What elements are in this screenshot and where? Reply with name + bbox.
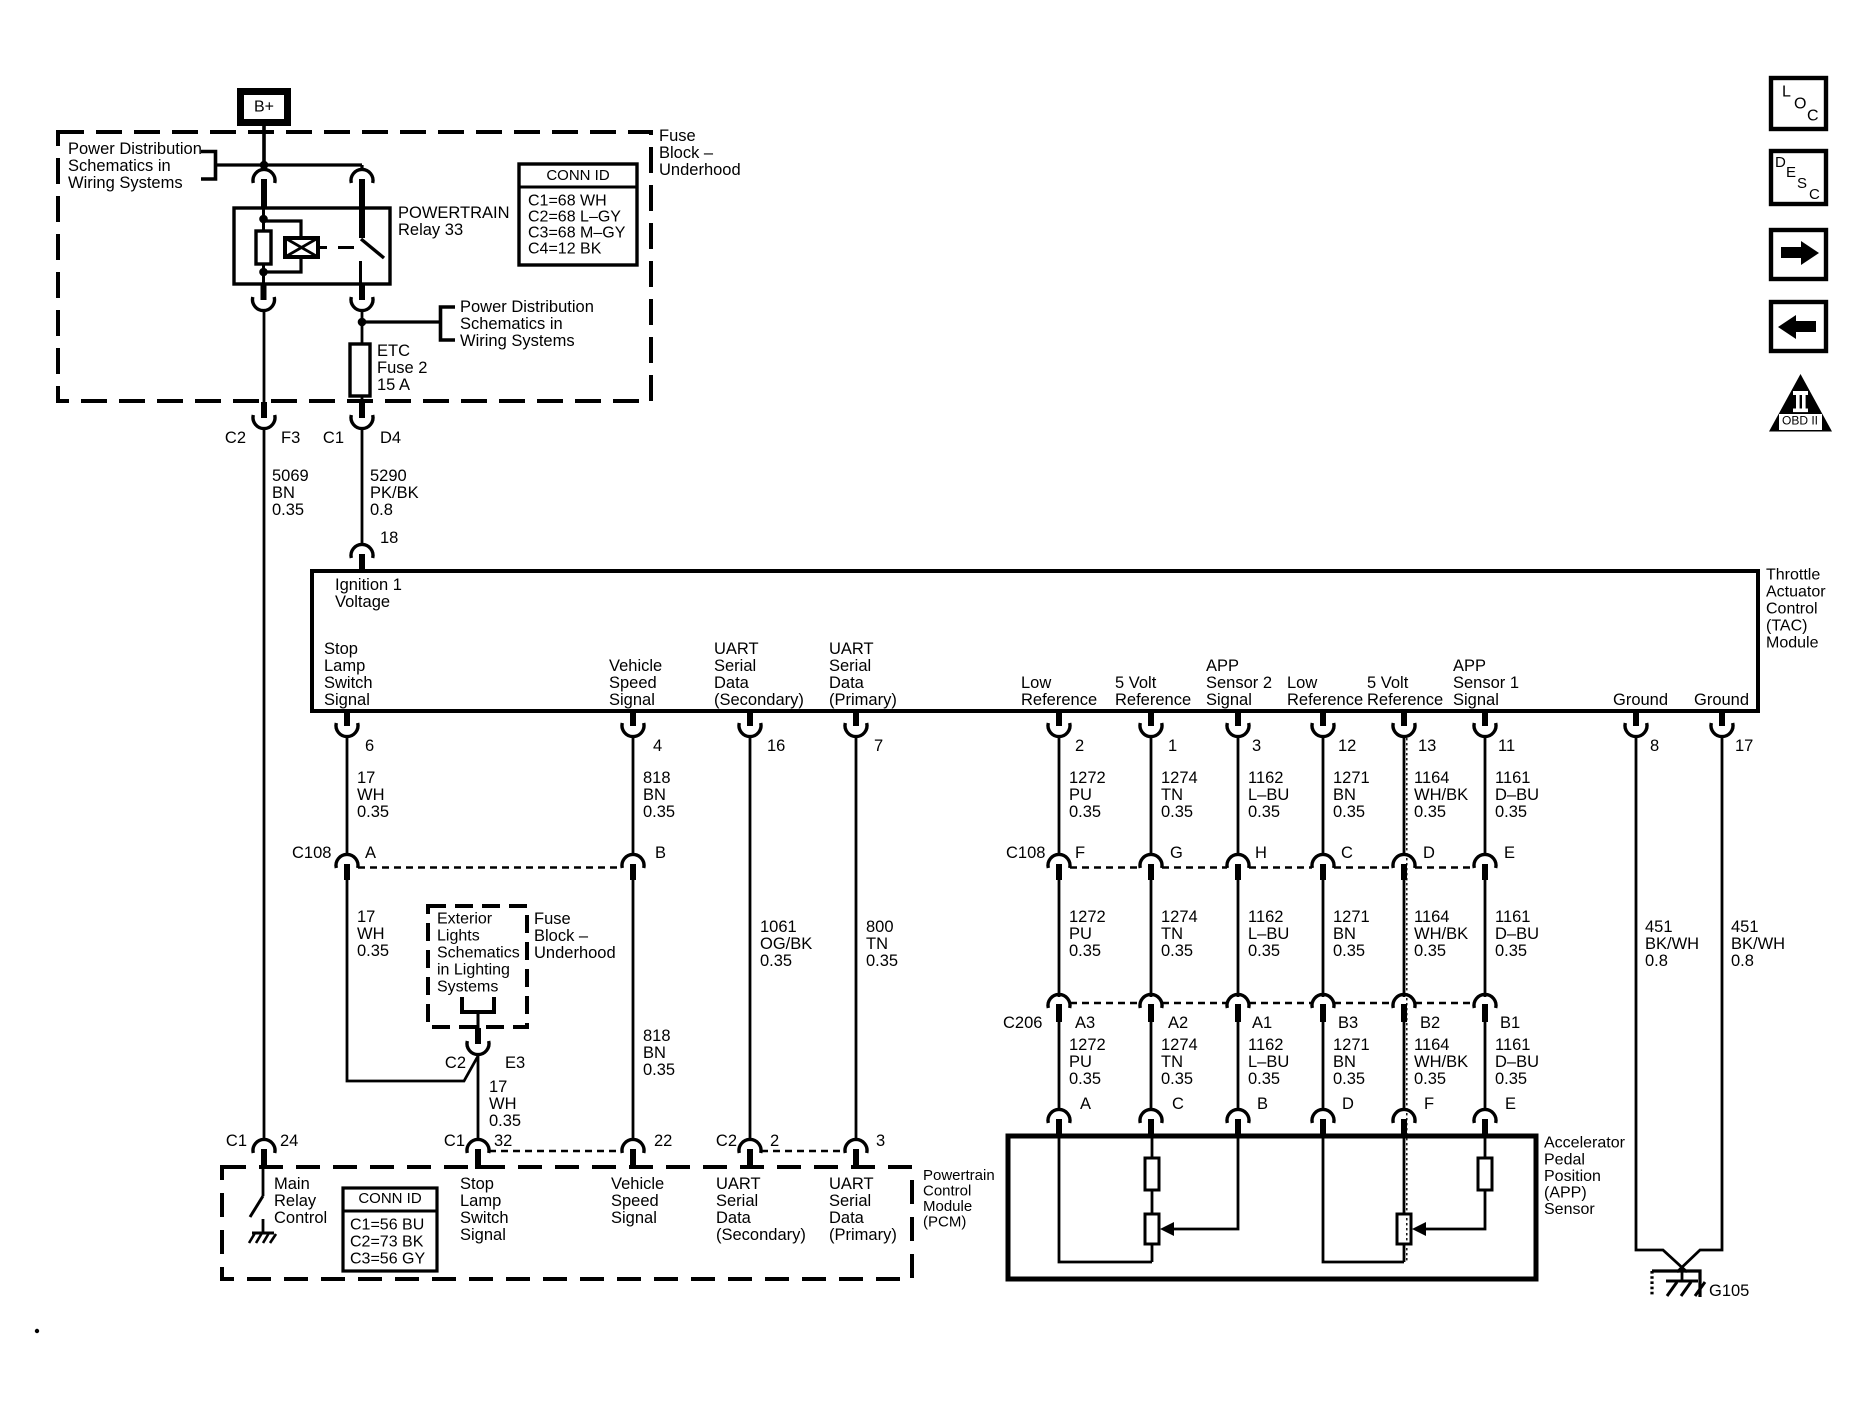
connector C206 A2 (1140, 994, 1162, 1008)
svg-text:D: D (1342, 1095, 1354, 1113)
wire APP D low reference (1323, 1136, 1404, 1262)
wire ground junction down (1681, 1268, 1684, 1282)
svg-text:Serial: Serial (829, 1192, 871, 1210)
svg-text:1271: 1271 (1333, 1036, 1370, 1054)
connector TAC pin 1 (1148, 711, 1154, 726)
svg-text:1272: 1272 (1069, 769, 1106, 787)
wire 5290 PK/BK down to TAC pin 18 (361, 428, 364, 545)
icon back arrow box (1771, 302, 1826, 351)
wire resistor bottom to junction (262, 264, 265, 285)
svg-text:C1=56 BU: C1=56 BU (350, 1217, 424, 1234)
connector C2 E3 (475, 1028, 481, 1044)
relay coil branch wires (264, 221, 302, 238)
connector PCM pin C1 24 (253, 1139, 275, 1153)
svg-text:2: 2 (770, 1132, 779, 1150)
svg-text:D4: D4 (380, 429, 401, 447)
resistor APP sensor 1 fixed (1478, 1158, 1492, 1190)
svg-text:D: D (1423, 844, 1435, 862)
wire potentiometer bottom (left) (1151, 1244, 1154, 1262)
svg-text:Pedal: Pedal (1544, 1151, 1585, 1168)
svg-text:PU: PU (1069, 1053, 1092, 1071)
wire 1271 C206 to APP sensor (1322, 1022, 1325, 1110)
svg-text:Lights: Lights (437, 928, 480, 945)
connector TAC pin 6 (344, 711, 350, 726)
wire TAC pin 6 to C108 A (346, 736, 349, 855)
svg-text:Switch: Switch (324, 674, 373, 692)
connector PCM pin C2 2 (739, 1139, 761, 1153)
svg-text:0.8: 0.8 (370, 501, 393, 519)
svg-text:TN: TN (1161, 1053, 1183, 1071)
svg-text:5290: 5290 (370, 467, 407, 485)
svg-text:BN: BN (1333, 786, 1356, 804)
svg-text:3: 3 (876, 1132, 885, 1150)
svg-text:C: C (1809, 186, 1820, 203)
connector TAC pin 16 (747, 711, 753, 726)
svg-text:B2: B2 (1420, 1014, 1440, 1032)
svg-text:Signal: Signal (1206, 691, 1252, 709)
svg-text:TN: TN (1161, 925, 1183, 943)
connector C108 D (1393, 854, 1415, 868)
svg-text:Ground: Ground (1694, 691, 1749, 709)
svg-text:Position: Position (1544, 1168, 1601, 1185)
relay switch lower contact (359, 261, 362, 285)
svg-text:E: E (1505, 1095, 1516, 1113)
svg-text:C2=73 BK: C2=73 BK (350, 1234, 424, 1251)
svg-text:Stop: Stop (324, 640, 358, 658)
svg-text:Reference: Reference (1287, 691, 1363, 709)
svg-text:C1: C1 (444, 1132, 465, 1150)
svg-text:L–BU: L–BU (1248, 925, 1289, 943)
connector PCM pin 3 (845, 1139, 867, 1153)
relay mechanical linkage dashes (318, 246, 327, 249)
svg-text:A: A (365, 844, 376, 862)
icon LOC box (1771, 78, 1826, 129)
wire ground TAC pin 17 down (1677, 736, 1722, 1272)
svg-text:C108: C108 (1006, 844, 1045, 862)
wire APP E signal with wiper arrow (1484, 1136, 1487, 1158)
wire C2 E3 down to PCM pin 32 (477, 1054, 480, 1140)
svg-text:B1: B1 (1500, 1014, 1520, 1032)
svg-text:OBD II: OBD II (1782, 414, 1818, 428)
svg-text:D–BU: D–BU (1495, 786, 1539, 804)
svg-text:Wiring Systems: Wiring Systems (68, 174, 183, 192)
connector relay 33 coil terminal top (253, 169, 275, 183)
svg-text:A: A (1080, 1095, 1091, 1113)
svg-text:0.35: 0.35 (1161, 1070, 1193, 1088)
icon DESC box (1771, 151, 1826, 204)
svg-text:Module: Module (923, 1198, 972, 1215)
svg-text:BN: BN (643, 786, 666, 804)
svg-text:E: E (1786, 164, 1796, 181)
connector C108 A (336, 854, 358, 868)
svg-text:WH: WH (489, 1095, 517, 1113)
svg-text:Vehicle: Vehicle (609, 657, 662, 675)
dashed connector line C108 right (1070, 866, 1140, 869)
svg-text:(Secondary): (Secondary) (716, 1226, 806, 1244)
fuse block underhood dashed box (58, 132, 651, 401)
svg-text:13: 13 (1418, 737, 1436, 755)
svg-text:Data: Data (829, 674, 865, 692)
svg-text:BN: BN (643, 1044, 666, 1062)
connector relay 33 coil terminal bottom (261, 285, 267, 300)
svg-text:Accelerator: Accelerator (1544, 1135, 1626, 1152)
wire APP F 5 volt feed (1403, 1136, 1406, 1214)
svg-text:TN: TN (866, 935, 888, 953)
connector TAC pin 2 (1056, 711, 1062, 726)
svg-text:32: 32 (494, 1132, 512, 1150)
chassis ground (PCM internal) (252, 1232, 274, 1235)
svg-text:Low: Low (1021, 674, 1051, 692)
connector PCM pin C1 32 (467, 1139, 489, 1153)
svg-text:0.35: 0.35 (1414, 803, 1446, 821)
svg-text:2: 2 (1075, 737, 1084, 755)
wire 1272 C108 to C206 (1058, 880, 1061, 997)
wire to off-page reference right (362, 320, 439, 323)
connector C108 H (1227, 854, 1249, 868)
connector C108 F (1048, 854, 1070, 868)
connector C108 C (1312, 854, 1334, 868)
svg-text:UART: UART (829, 1175, 874, 1193)
svg-text:11: 11 (1498, 737, 1515, 755)
svg-text:D–BU: D–BU (1495, 925, 1539, 943)
svg-text:D: D (1775, 154, 1786, 171)
TAC module box (312, 571, 1758, 711)
wire potentiometer bottom (right) (1403, 1244, 1406, 1262)
svg-text:OG/BK: OG/BK (760, 935, 812, 953)
svg-text:1164: 1164 (1414, 1036, 1449, 1054)
svg-text:0.35: 0.35 (1069, 803, 1101, 821)
dashed connector line PCM C2 (761, 1150, 845, 1153)
connector C206 B1 (1474, 994, 1496, 1008)
svg-text:Schematics in: Schematics in (460, 315, 563, 333)
svg-text:A1: A1 (1252, 1014, 1272, 1032)
svg-text:E: E (1504, 844, 1515, 862)
svg-text:24: 24 (280, 1132, 298, 1150)
svg-text:17: 17 (357, 908, 375, 926)
wire tie down to relay switch connector (360, 165, 363, 170)
svg-text:0.35: 0.35 (1161, 803, 1193, 821)
connector C206 B2 (1393, 994, 1415, 1008)
svg-text:1161: 1161 (1495, 1036, 1530, 1054)
wire C108 A down and across to C2 E3 node (347, 880, 478, 1081)
svg-text:D–BU: D–BU (1495, 1053, 1539, 1071)
svg-text:O: O (1794, 96, 1806, 113)
svg-text:17: 17 (1735, 737, 1753, 755)
svg-text:Low: Low (1287, 674, 1317, 692)
svg-text:0.35: 0.35 (1495, 1070, 1527, 1088)
svg-text:0.35: 0.35 (489, 1112, 521, 1130)
svg-text:Control: Control (274, 1209, 327, 1227)
wire 1164 C206 to APP sensor (1403, 1022, 1406, 1110)
svg-text:0.35: 0.35 (1069, 1070, 1101, 1088)
svg-text:0.35: 0.35 (357, 803, 389, 821)
svg-text:(Primary): (Primary) (829, 1226, 897, 1244)
svg-text:C206: C206 (1003, 1014, 1042, 1032)
wire fuse to connector D4 (361, 396, 364, 403)
svg-text:1274: 1274 (1161, 1036, 1198, 1054)
junction relay coil top (259, 215, 268, 224)
wire C108 B down to PCM pin 22 (632, 880, 635, 1140)
svg-text:17: 17 (357, 769, 375, 787)
switch main relay control (262, 1165, 265, 1196)
CONN ID table fuse block (519, 164, 637, 265)
svg-text:C2: C2 (445, 1054, 466, 1072)
svg-text:Schematics in: Schematics in (68, 157, 171, 175)
dotted trace along 1164 WH/BK wire (1406, 738, 1408, 1262)
svg-text:BN: BN (1333, 925, 1356, 943)
icon forward arrow box (1771, 230, 1826, 279)
wire B+ down to relay coil connector (262, 126, 266, 170)
svg-text:451: 451 (1731, 918, 1759, 936)
svg-text:B+: B+ (254, 99, 274, 116)
connector TAC pin 11 (1482, 711, 1488, 726)
connector TAC pin 13 (1401, 711, 1407, 726)
svg-text:Serial: Serial (829, 657, 871, 675)
svg-text:Lamp: Lamp (324, 657, 365, 675)
svg-text:Reference: Reference (1115, 691, 1191, 709)
svg-text:B3: B3 (1338, 1014, 1358, 1032)
svg-text:C3=68 M–GY: C3=68 M–GY (528, 225, 626, 242)
svg-text:WH/BK: WH/BK (1414, 1053, 1468, 1071)
svg-text:Sensor: Sensor (1544, 1201, 1595, 1218)
connector C1 D4 (359, 402, 365, 418)
PCM dashed box (222, 1167, 912, 1279)
svg-text:Power Distribution: Power Distribution (460, 298, 594, 316)
APP sensor box (1008, 1136, 1536, 1279)
svg-text:Fuse: Fuse (659, 127, 696, 145)
wire 5069 BN down to PCM pin 24 (263, 428, 266, 1140)
svg-text:A2: A2 (1168, 1014, 1188, 1032)
svg-text:800: 800 (866, 918, 894, 936)
svg-text:Speed: Speed (609, 674, 657, 692)
wire APP A low reference (1059, 1136, 1152, 1262)
svg-text:ETC: ETC (377, 342, 410, 360)
wire 1162 TAC to C108 (1237, 736, 1240, 855)
svg-text:UART: UART (829, 640, 874, 658)
svg-text:5 Volt: 5 Volt (1367, 674, 1409, 692)
svg-text:Switch: Switch (460, 1209, 509, 1227)
svg-text:(Secondary): (Secondary) (714, 691, 804, 709)
wire UART secondary TAC pin 16 to PCM (749, 736, 752, 1140)
icon OBD II warning triangle (1769, 374, 1832, 432)
connector C206 B3 (1312, 994, 1334, 1008)
svg-text:C: C (1341, 844, 1353, 862)
svg-text:Actuator: Actuator (1766, 584, 1826, 601)
svg-text:1: 1 (1168, 737, 1177, 755)
wire ground TAC pin 8 down (1636, 736, 1687, 1272)
wire 1272 TAC to C108 (1058, 736, 1061, 855)
wire 1274 TAC to C108 (1150, 736, 1153, 855)
svg-text:Speed: Speed (611, 1192, 659, 1210)
connector TAC pin 12 (1320, 711, 1326, 726)
svg-text:Fuse: Fuse (534, 910, 571, 928)
svg-text:Relay: Relay (274, 1192, 317, 1210)
svg-text:Signal: Signal (1453, 691, 1499, 709)
svg-text:Underhood: Underhood (659, 161, 741, 179)
svg-text:BK/WH: BK/WH (1731, 935, 1785, 953)
svg-text:8: 8 (1650, 737, 1659, 755)
stray mark bottom left (35, 1329, 39, 1333)
wire 1271 TAC to C108 (1322, 736, 1325, 855)
svg-text:L–BU: L–BU (1248, 1053, 1289, 1071)
svg-text:Sensor 1: Sensor 1 (1453, 674, 1519, 692)
wire 1272 C206 to APP sensor (1058, 1022, 1061, 1110)
svg-text:Power Distribution: Power Distribution (68, 140, 202, 158)
connector C108 G (1140, 854, 1162, 868)
svg-text:Fuse 2: Fuse 2 (377, 359, 427, 377)
svg-text:WH/BK: WH/BK (1414, 786, 1468, 804)
svg-text:0.35: 0.35 (1414, 942, 1446, 960)
off-page reference Power Distribution Schematics in Wiring Systems (right) (441, 307, 456, 340)
connector C206 A1 (1227, 994, 1249, 1008)
connector C2 F3 (261, 402, 267, 418)
svg-text:Serial: Serial (716, 1192, 758, 1210)
resistor APP sensor 2 fixed (1145, 1158, 1159, 1190)
relay coil solenoid symbol (285, 238, 318, 257)
connector TAC pin 17 (1719, 711, 1725, 726)
svg-text:15 A: 15 A (377, 376, 410, 394)
svg-text:Data: Data (716, 1209, 752, 1227)
connector TAC pin 4 (630, 711, 636, 726)
svg-text:0.35: 0.35 (1248, 942, 1280, 960)
svg-text:F: F (1075, 844, 1085, 862)
svg-text:TN: TN (1161, 786, 1183, 804)
svg-text:C2=68 L–GY: C2=68 L–GY (528, 209, 621, 226)
svg-text:3: 3 (1252, 737, 1261, 755)
svg-text:818: 818 (643, 1027, 671, 1045)
wire resistor down and across (right) (1420, 1190, 1485, 1229)
svg-text:Data: Data (714, 674, 750, 692)
wire 1274 C108 to C206 (1150, 880, 1153, 997)
potentiometer APP sensor 1 element (1397, 1214, 1411, 1244)
svg-text:0.35: 0.35 (643, 803, 675, 821)
svg-text:CONN ID: CONN ID (358, 1190, 422, 1207)
svg-text:Main: Main (274, 1175, 310, 1193)
wire 1164 C108 to C206 (1403, 880, 1406, 997)
svg-text:Stop: Stop (460, 1175, 494, 1193)
exterior lights schematics dashed box (428, 906, 527, 1027)
svg-text:0.35: 0.35 (1333, 1070, 1365, 1088)
svg-text:5069: 5069 (272, 467, 309, 485)
svg-text:1272: 1272 (1069, 908, 1106, 926)
svg-text:C3=56 GY: C3=56 GY (350, 1251, 425, 1268)
svg-text:Throttle: Throttle (1766, 567, 1820, 584)
svg-text:(Primary): (Primary) (829, 691, 897, 709)
svg-text:C1: C1 (323, 429, 344, 447)
junction relay coil bottom (259, 268, 268, 277)
svg-text:1271: 1271 (1333, 769, 1370, 787)
connector relay 33 switch terminal top (351, 169, 373, 183)
svg-text:0.35: 0.35 (1069, 942, 1101, 960)
svg-text:0.35: 0.35 (1495, 942, 1527, 960)
junction on B+ wire at tie (260, 161, 269, 170)
svg-text:(PCM): (PCM) (923, 1213, 966, 1230)
wire 1271 C108 to C206 (1322, 880, 1325, 997)
svg-text:POWERTRAIN: POWERTRAIN (398, 204, 510, 222)
svg-text:0.35: 0.35 (357, 942, 389, 960)
svg-text:0.35: 0.35 (1161, 942, 1193, 960)
ground G105 symbol (1650, 1271, 1653, 1297)
junction ETC fuse feed (358, 318, 367, 327)
svg-text:B: B (655, 844, 666, 862)
svg-text:22: 22 (654, 1132, 672, 1150)
svg-text:B: B (1257, 1095, 1268, 1113)
connector TAC pin 8 (1633, 711, 1639, 726)
svg-text:Systems: Systems (437, 979, 498, 996)
svg-text:Block –: Block – (659, 144, 714, 162)
svg-text:UART: UART (714, 640, 759, 658)
bracket exterior lights feed (462, 997, 494, 1012)
svg-text:Schematics: Schematics (437, 945, 520, 962)
svg-text:1271: 1271 (1333, 908, 1370, 926)
svg-text:451: 451 (1645, 918, 1673, 936)
svg-text:BN: BN (272, 484, 295, 502)
connector TAC pin 3 (1235, 711, 1241, 726)
svg-text:Ignition 1: Ignition 1 (335, 576, 402, 594)
svg-text:0.8: 0.8 (1731, 952, 1754, 970)
connector PCM pin 22 (622, 1139, 644, 1153)
svg-text:S: S (1797, 175, 1807, 192)
svg-text:UART: UART (716, 1175, 761, 1193)
wire 1161 C108 to C206 (1484, 880, 1487, 997)
svg-text:Vehicle: Vehicle (611, 1175, 664, 1193)
connector TAC pin 7 (853, 711, 859, 726)
svg-text:Underhood: Underhood (534, 944, 616, 962)
svg-text:Control: Control (923, 1182, 971, 1199)
relay suppression resistor (256, 231, 271, 264)
svg-text:Powertrain: Powertrain (923, 1167, 995, 1184)
svg-text:WH: WH (357, 925, 385, 943)
svg-text:Ground: Ground (1613, 691, 1668, 709)
wire APP B signal with wiper arrow (1168, 1136, 1238, 1229)
svg-text:0.35: 0.35 (643, 1061, 675, 1079)
svg-text:0.35: 0.35 (1495, 803, 1527, 821)
relay switch blade (361, 239, 384, 258)
connector C206 A3 (1048, 994, 1070, 1008)
svg-text:0.35: 0.35 (760, 952, 792, 970)
svg-text:in Lighting: in Lighting (437, 962, 510, 979)
svg-text:4: 4 (653, 737, 662, 755)
svg-text:12: 12 (1338, 737, 1356, 755)
svg-text:Signal: Signal (324, 691, 370, 709)
svg-text:C108: C108 (292, 844, 331, 862)
svg-text:0.35: 0.35 (1248, 803, 1280, 821)
svg-text:Serial: Serial (714, 657, 756, 675)
wire TAC pin 4 to C108 B (632, 736, 635, 855)
relay 33 box (234, 208, 390, 284)
svg-text:CONN ID: CONN ID (546, 167, 610, 184)
svg-text:0.35: 0.35 (1333, 942, 1365, 960)
svg-text:0.35: 0.35 (272, 501, 304, 519)
svg-text:F: F (1424, 1095, 1434, 1113)
wire 1162 C206 to APP sensor (1237, 1022, 1240, 1110)
svg-text:Control: Control (1766, 601, 1818, 618)
relay coil feed wire (262, 209, 265, 231)
svg-text:Reference: Reference (1021, 691, 1097, 709)
svg-text:WH: WH (357, 786, 385, 804)
wire relay switch output down (361, 309, 364, 344)
wire APP C 5 volt feed (1151, 1136, 1154, 1158)
svg-text:A3: A3 (1075, 1014, 1095, 1032)
svg-text:H: H (1255, 844, 1267, 862)
svg-text:1061: 1061 (760, 918, 797, 936)
svg-text:7: 7 (874, 737, 883, 755)
svg-text:Signal: Signal (609, 691, 655, 709)
svg-text:1162: 1162 (1248, 1036, 1283, 1054)
svg-text:C: C (1807, 108, 1819, 125)
svg-text:WH/BK: WH/BK (1414, 925, 1468, 943)
CONN ID table PCM (343, 1188, 437, 1271)
